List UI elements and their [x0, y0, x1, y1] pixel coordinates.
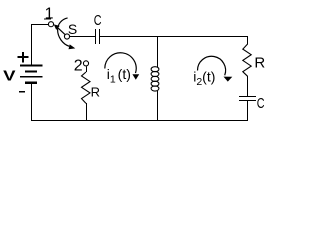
battery V negative short plate 2 — [25, 82, 37, 84]
svg-text:V: V — [3, 67, 15, 84]
inductor L coil — [151, 67, 159, 91]
capacitor C2 plates (right) — [239, 97, 256, 101]
svg-text:R: R — [91, 84, 100, 99]
wire capacitor C2 to bottom — [247, 101, 249, 122]
switch pivot circle S — [64, 34, 69, 39]
svg-text:i1(t): i1(t) — [107, 66, 131, 86]
wire bottom horizontal — [31, 120, 248, 122]
wire middle branch lower — [157, 91, 159, 121]
wire right vertical upper — [247, 36, 249, 44]
svg-text:R: R — [254, 55, 265, 72]
svg-text:S: S — [68, 21, 77, 37]
battery V positive long plate 2 — [20, 76, 43, 78]
wire resistor R1 to bottom — [86, 103, 88, 121]
node 1 terminal circle — [48, 22, 53, 27]
wire middle branch upper — [157, 36, 159, 67]
label 1 — [44, 6, 53, 23]
switch arm with arrowhead toward node 1 — [54, 24, 65, 34]
svg-text:1: 1 — [45, 6, 54, 23]
wire from switch to capacitor C1 — [70, 36, 95, 38]
wire top horizontal from C1 to right corner — [100, 36, 248, 38]
plus sign — [18, 52, 29, 63]
battery V negative short plate 1 — [25, 70, 37, 72]
minus sign — [19, 91, 25, 93]
svg-text:2: 2 — [74, 58, 83, 75]
wire left vertical lower — [31, 84, 33, 121]
node 2 terminal circle — [83, 61, 88, 66]
switch throw arc arrow from 1 to 2 — [58, 18, 76, 49]
wire left vertical upper — [31, 24, 33, 65]
resistor R2 zigzag — [243, 44, 251, 76]
capacitor C1 plates (top) — [96, 29, 100, 44]
wire top-left horizontal to node 1 — [31, 24, 48, 26]
svg-text:i2(t): i2(t) — [193, 68, 215, 88]
wire resistor R2 to capacitor C2 — [247, 76, 249, 97]
svg-text:C: C — [94, 12, 102, 29]
svg-text:C: C — [257, 95, 265, 112]
wire node 2 to resistor R1 — [86, 66, 88, 72]
mesh current i2(t) arc arrow — [197, 56, 232, 81]
resistor R1 zigzag — [82, 72, 91, 103]
mesh current i1(t) arc arrow — [105, 53, 139, 80]
battery V positive long plate 1 — [20, 65, 43, 67]
